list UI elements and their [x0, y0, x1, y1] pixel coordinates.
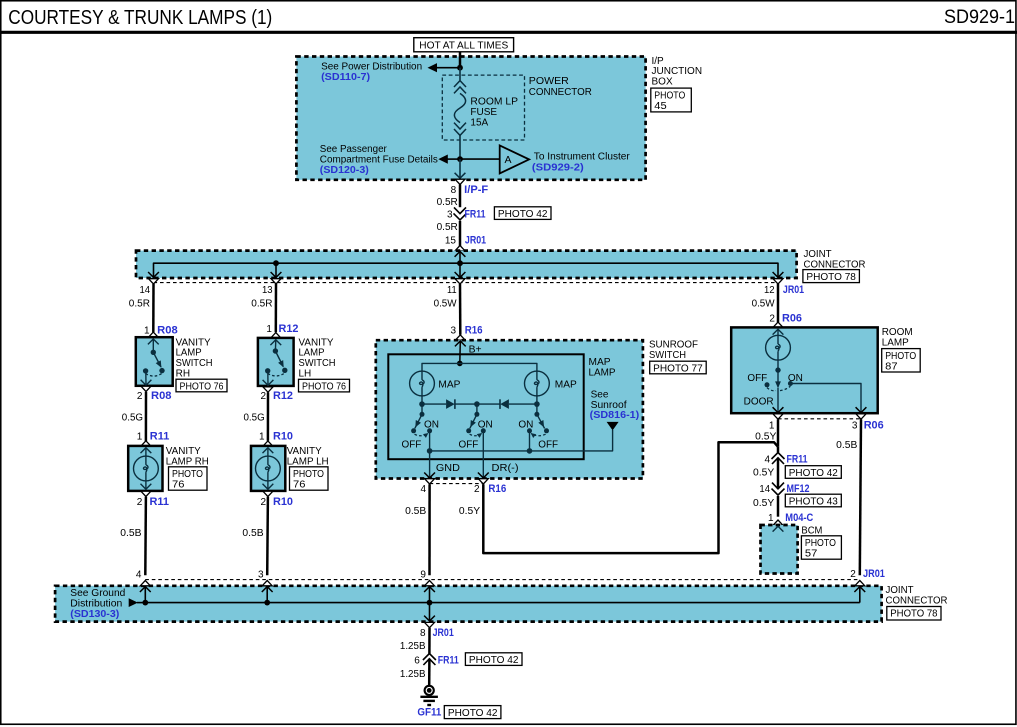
svg-text:BCM: BCM — [801, 526, 822, 537]
svg-text:87: 87 — [885, 361, 898, 372]
wire 0.5R segment 1 — [459, 185, 462, 208]
inline connector 3 FR11 — [454, 207, 466, 213]
svg-text:R06: R06 — [782, 312, 802, 324]
svg-text:2: 2 — [850, 569, 856, 580]
wire 0.5B LH to ground bus — [266, 497, 269, 576]
svg-text:COURTESY & TRUNK LAMPS (1): COURTESY & TRUNK LAMPS (1) — [8, 6, 272, 29]
svg-text:3: 3 — [451, 325, 457, 336]
photo 87 box — [882, 349, 921, 373]
GND exit wire — [429, 451, 431, 478]
connector 8 I/P-F — [455, 179, 465, 184]
svg-text:0.5G: 0.5G — [122, 412, 143, 423]
svg-text:PHOTO 42: PHOTO 42 — [469, 655, 519, 666]
photo 57 box — [801, 536, 841, 560]
wire 0.5Y room lamp pin1 — [777, 419, 780, 446]
svg-text:LAMP: LAMP — [882, 338, 909, 349]
bottom joint connector labels — [886, 585, 948, 607]
fuse label ROOM LP FUSE 15A — [470, 96, 518, 128]
svg-text:PHOTO 76: PHOTO 76 — [180, 381, 224, 392]
I/P junction box (dashed) — [296, 57, 645, 180]
photo 42 box right1 — [785, 466, 841, 479]
svg-text:See Passenger: See Passenger — [320, 144, 388, 155]
svg-text:1.25B: 1.25B — [400, 669, 426, 680]
svg-text:0.5Y: 0.5Y — [755, 431, 777, 442]
svg-text:R12: R12 — [273, 390, 293, 402]
junction node at power feed — [457, 65, 463, 71]
arrow at I/P box exit — [455, 173, 466, 178]
svg-text:3: 3 — [258, 569, 264, 580]
joint connector JR01 box (top) — [136, 251, 797, 278]
B+ entry arrow — [455, 341, 466, 346]
svg-text:MAP: MAP — [555, 379, 577, 390]
svg-text:SUNROOF: SUNROOF — [649, 339, 698, 350]
title bar separator line — [0, 31, 1017, 34]
wire 0.5Y to BCM — [777, 496, 780, 517]
wire 0.5B RH to ground bus — [144, 497, 147, 576]
svg-text:PHOTO 78: PHOTO 78 — [890, 609, 938, 620]
I/P junction box label — [652, 56, 703, 88]
map lamp right — [525, 371, 550, 396]
pin 3 connector bottom — [262, 581, 272, 586]
svg-text:14: 14 — [759, 484, 770, 495]
svg-text:MAP: MAP — [589, 357, 611, 368]
wire to see-power-distribution arrow — [436, 67, 460, 69]
svg-text:LAMP LH: LAMP LH — [287, 456, 329, 467]
vanity lamp switch LH box — [258, 338, 294, 386]
pin 13 connector — [271, 279, 281, 284]
label See Power Distribution — [321, 62, 422, 83]
svg-text:(SD130-3): (SD130-3) — [70, 608, 119, 620]
svg-text:PHOTO: PHOTO — [654, 90, 685, 101]
svg-text:0.5B: 0.5B — [836, 440, 858, 451]
BCM box (dashed) — [761, 525, 798, 574]
svg-text:SD929-1: SD929-1 — [944, 7, 1015, 28]
wire to gauge triangle — [460, 158, 500, 160]
svg-text:PHOTO 42: PHOTO 42 — [448, 708, 498, 719]
svg-text:2: 2 — [769, 313, 775, 324]
thin dashed connector line (sunroof) — [430, 483, 484, 485]
svg-text:8: 8 — [420, 628, 426, 639]
label vanity lamp switch LH — [299, 337, 336, 379]
pin 14 connector — [149, 279, 159, 284]
svg-text:PHOTO: PHOTO — [805, 538, 836, 549]
label vanity lamp LH — [287, 446, 329, 467]
svg-text:0.5R: 0.5R — [251, 298, 272, 309]
svg-text:3: 3 — [852, 421, 858, 432]
svg-text:CONNECTOR: CONNECTOR — [529, 87, 592, 98]
svg-text:See Ground: See Ground — [70, 588, 125, 599]
svg-text:1: 1 — [266, 324, 272, 335]
pin 8 exit — [429, 603, 431, 622]
pin 11 connector — [455, 279, 465, 284]
photo 76 box lamp LH — [290, 467, 329, 491]
svg-text:PHOTO 42: PHOTO 42 — [498, 209, 548, 220]
svg-text:2: 2 — [137, 497, 143, 508]
gauge symbol A triangle — [500, 145, 529, 173]
svg-text:R08: R08 — [157, 324, 178, 336]
thin dashed connector line (room lamp) — [778, 418, 861, 420]
vanity lamp RH internals — [134, 448, 159, 490]
svg-text:A: A — [505, 155, 512, 166]
vanity lamp LH box — [251, 446, 285, 491]
svg-text:0.5Y: 0.5Y — [753, 468, 775, 479]
svg-text:ON: ON — [478, 419, 493, 430]
svg-text:HOT AT ALL TIMES: HOT AT ALL TIMES — [419, 41, 508, 52]
wire 0.5B room lamp pin3 to JR01 — [860, 419, 861, 575]
svg-text:14: 14 — [140, 285, 151, 296]
DR(-) exit wire — [482, 431, 484, 478]
ground bus wire — [145, 602, 860, 604]
svg-text:1: 1 — [768, 513, 774, 524]
diode D1 — [446, 399, 455, 409]
svg-text:8: 8 — [451, 185, 457, 196]
svg-text:PHOTO: PHOTO — [293, 469, 324, 480]
svg-text:2: 2 — [137, 391, 143, 402]
svg-text:0.5R: 0.5R — [129, 298, 150, 309]
svg-text:MAP: MAP — [438, 379, 460, 390]
room lamp labels — [882, 327, 913, 349]
pin 13 internal wire — [275, 263, 277, 278]
svg-text:RH: RH — [176, 368, 190, 379]
svg-text:0.5B: 0.5B — [242, 528, 264, 539]
connector 2 R11 — [141, 491, 151, 496]
photo 42 box top — [494, 207, 551, 220]
sunroof switch S3 — [518, 404, 558, 450]
fuse bottom connector chevrons — [454, 123, 466, 129]
see sunroof arrow — [607, 422, 619, 431]
svg-text:R16: R16 — [488, 483, 506, 495]
svg-text:1: 1 — [137, 432, 143, 443]
wire from HOT label into box — [459, 52, 462, 68]
pin 9 connector bottom — [425, 581, 435, 586]
wire 0.5G RH — [145, 392, 148, 442]
map lamp left — [410, 371, 435, 396]
diode bus wires — [421, 396, 423, 404]
svg-text:R10: R10 — [273, 431, 293, 443]
svg-text:CONNECTOR: CONNECTOR — [886, 596, 948, 607]
svg-text:0.5B: 0.5B — [405, 506, 427, 517]
photo 76 box switch LH — [299, 379, 350, 392]
svg-text:6: 6 — [414, 656, 420, 667]
switch RH internals — [141, 339, 165, 385]
svg-text:1: 1 — [259, 432, 265, 443]
svg-text:1.25B: 1.25B — [400, 641, 426, 652]
joint connector bus wire — [154, 263, 779, 278]
svg-text:4: 4 — [420, 484, 426, 495]
svg-text:2: 2 — [261, 391, 267, 402]
svg-text:FUSE: FUSE — [470, 107, 497, 118]
wire from fuse to cluster node — [459, 135, 461, 159]
svg-text:PHOTO: PHOTO — [172, 469, 203, 480]
svg-text:R08: R08 — [151, 390, 172, 402]
wire fuse output down — [459, 159, 461, 179]
svg-text:JR01: JR01 — [783, 284, 804, 296]
svg-text:R06: R06 — [864, 420, 884, 432]
svg-text:3: 3 — [447, 209, 453, 220]
map lamp inner box — [388, 354, 583, 459]
sunroof switch S1 — [402, 404, 440, 450]
svg-text:LAMP RH: LAMP RH — [166, 456, 209, 467]
svg-text:JR01: JR01 — [433, 627, 454, 639]
svg-text:JR01: JR01 — [863, 568, 885, 580]
svg-text:DOOR: DOOR — [744, 397, 774, 408]
svg-text:ON: ON — [424, 419, 439, 430]
connector 2 R08 — [141, 386, 151, 391]
pin 12 connector — [773, 279, 783, 284]
svg-text:15: 15 — [445, 236, 457, 247]
arrow to fuse details — [438, 155, 448, 164]
room lamp internals — [744, 329, 867, 412]
svg-text:(SD929-2): (SD929-2) — [532, 161, 584, 173]
svg-text:15A: 15A — [470, 118, 488, 129]
pin 11 internal wire — [459, 263, 461, 278]
fuse ROOM LP FUSE 15A element — [454, 93, 465, 122]
label vanity lamp RH — [166, 446, 209, 467]
wire 0.5Y DR(-) to BCM net — [483, 442, 778, 553]
connector 2 R10 — [263, 491, 273, 496]
diode bus nodes — [419, 401, 425, 407]
junction node to instrument cluster — [457, 156, 463, 162]
sunroof exit connectors — [425, 479, 435, 484]
lamp feed bus — [457, 361, 463, 367]
svg-text:SWITCH: SWITCH — [649, 350, 686, 361]
wire 0.5B GND to ground bus — [428, 484, 431, 575]
sunroof switch box (dashed) — [376, 340, 643, 478]
power connector label — [529, 76, 592, 98]
svg-text:CONNECTOR: CONNECTOR — [804, 259, 866, 270]
room lamp box — [731, 327, 878, 413]
svg-text:BOX: BOX — [652, 76, 673, 87]
inline connector 14 MF12 — [772, 483, 784, 489]
svg-text:FR11: FR11 — [465, 208, 486, 220]
sunroof switch S2 — [459, 404, 493, 450]
thin dashed connector line (bottom) — [145, 579, 860, 581]
sunroof bottom bus — [429, 431, 431, 451]
svg-text:2: 2 — [474, 484, 480, 495]
svg-text:(SD110-7): (SD110-7) — [321, 71, 370, 83]
label vanity lamp switch RH — [176, 337, 213, 379]
svg-text:0.5R: 0.5R — [437, 222, 458, 233]
wire 0.5W pin12 drop — [777, 284, 780, 322]
svg-text:GND: GND — [436, 463, 460, 474]
wire 0.5R segment 2 — [459, 221, 462, 246]
diode D2 — [500, 399, 509, 409]
photo 42 box ground — [444, 706, 501, 719]
svg-text:PHOTO 76: PHOTO 76 — [302, 382, 346, 393]
svg-text:MF12: MF12 — [787, 483, 810, 495]
svg-text:1: 1 — [144, 325, 150, 336]
svg-text:ROOM: ROOM — [882, 327, 913, 338]
see ground distribution arrow — [129, 598, 138, 607]
switch LH internals — [263, 340, 288, 386]
svg-text:12: 12 — [764, 285, 775, 296]
svg-text:JOINT: JOINT — [886, 585, 914, 596]
svg-text:(SD120-3): (SD120-3) — [320, 164, 369, 176]
svg-text:0.5R: 0.5R — [437, 197, 458, 208]
svg-text:See: See — [591, 389, 609, 400]
svg-text:0.5W: 0.5W — [752, 298, 776, 309]
map lamp label — [589, 357, 616, 379]
ground symbol GF11 — [420, 686, 438, 705]
svg-text:LH: LH — [299, 368, 312, 379]
svg-text:DR(-): DR(-) — [492, 463, 519, 474]
photo 45 box — [651, 88, 692, 112]
wire 0.5G LH — [267, 392, 270, 440]
svg-text:ON: ON — [788, 373, 803, 384]
svg-text:0.5G: 0.5G — [244, 412, 265, 423]
svg-text:0.5Y: 0.5Y — [753, 498, 775, 509]
exit arrows top joint connector — [148, 272, 159, 277]
photo 77 box — [650, 361, 707, 374]
svg-text:R11: R11 — [150, 431, 170, 443]
wire 0.5R pin14 drop — [152, 284, 155, 332]
svg-text:0.5Y: 0.5Y — [459, 506, 481, 517]
svg-text:I/P-F: I/P-F — [464, 184, 488, 196]
label HOT AT ALL TIMES — [414, 38, 514, 52]
svg-text:OFF: OFF — [459, 439, 479, 450]
vanity lamp switch RH box — [136, 337, 173, 386]
wire 1.25B segment 2 — [428, 659, 431, 685]
wire 0.5Y to MF12 — [777, 458, 780, 489]
room lamp exit connectors — [773, 414, 783, 419]
label See Sunroof SD816-1 — [590, 389, 640, 421]
connector 2 R12 — [263, 387, 273, 392]
inline connector 6 FR11 — [423, 654, 436, 661]
svg-text:PHOTO 78: PHOTO 78 — [806, 272, 856, 283]
svg-text:FR11: FR11 — [438, 655, 459, 667]
svg-text:R12: R12 — [279, 323, 299, 335]
pin 2 connector bottom — [855, 581, 865, 586]
svg-text:0.5W: 0.5W — [434, 298, 458, 309]
svg-text:R16: R16 — [465, 324, 483, 336]
vanity lamp LH internals — [256, 448, 281, 490]
svg-text:57: 57 — [805, 549, 818, 560]
svg-text:4: 4 — [764, 455, 770, 466]
svg-text:13: 13 — [262, 285, 273, 296]
svg-text:ON: ON — [518, 419, 533, 430]
svg-text:0.5B: 0.5B — [120, 528, 142, 539]
fuse top connector chevrons — [454, 81, 466, 87]
pin 4 connector bottom — [140, 581, 150, 586]
wire into fuse connector — [459, 68, 461, 81]
power connector dashed box — [442, 75, 524, 140]
arrow to power distribution — [428, 63, 438, 72]
wire 0.5R pin13 drop — [275, 284, 278, 332]
photo 78 box bottom — [887, 607, 941, 621]
svg-text:OFF: OFF — [402, 439, 422, 450]
photo 43 box — [785, 494, 841, 507]
svg-text:JOINT: JOINT — [804, 249, 832, 260]
svg-text:4: 4 — [136, 569, 142, 580]
svg-text:OFF: OFF — [747, 373, 767, 384]
svg-text:2: 2 — [261, 497, 267, 508]
vanity lamp RH box — [128, 446, 162, 491]
label To Instrument Cluster — [532, 152, 631, 174]
svg-text:1: 1 — [769, 421, 775, 432]
svg-text:76: 76 — [172, 480, 185, 491]
svg-text:FR11: FR11 — [787, 454, 808, 466]
photo 76 box lamp RH — [169, 467, 208, 491]
svg-text:R11: R11 — [150, 496, 170, 508]
photo 42 box bottom — [465, 653, 522, 666]
svg-text:11: 11 — [447, 285, 457, 296]
svg-text:ROOM LP: ROOM LP — [470, 96, 518, 107]
photo 76 box switch RH — [176, 379, 227, 392]
thin dashed connector line (top) — [154, 282, 779, 284]
photo 78 box top — [803, 270, 860, 283]
wire 1.25B segment 1 — [428, 628, 431, 654]
label See Ground Distribution — [70, 588, 125, 620]
svg-text:(SD816-1): (SD816-1) — [590, 409, 640, 421]
wire to passenger-compartment arrow — [447, 158, 460, 160]
svg-text:PHOTO 42: PHOTO 42 — [789, 468, 838, 479]
BCM entry arrow — [773, 526, 784, 531]
svg-text:LAMP: LAMP — [589, 367, 616, 378]
svg-text:45: 45 — [654, 101, 667, 112]
svg-text:POWER: POWER — [529, 76, 569, 87]
svg-text:OFF: OFF — [538, 439, 558, 450]
svg-text:GF11: GF11 — [417, 707, 441, 719]
inline connector 4 FR11 — [772, 453, 785, 460]
svg-text:76: 76 — [293, 480, 306, 491]
label See Passenger Compartment Fuse Details — [320, 144, 438, 176]
svg-text:9: 9 — [420, 569, 426, 580]
svg-text:JR01: JR01 — [465, 235, 486, 247]
sunroof switch labels — [649, 339, 698, 361]
svg-text:M04-C: M04-C — [785, 512, 813, 524]
joint connector JR01 box (bottom) — [55, 586, 882, 622]
entry arrow inside joint connector — [455, 251, 466, 256]
svg-text:PHOTO: PHOTO — [885, 351, 916, 362]
bus junction node pin13 — [273, 260, 279, 266]
wire 0.5W pin11 drop — [459, 284, 462, 335]
svg-text:PHOTO 43: PHOTO 43 — [789, 496, 838, 507]
svg-text:R10: R10 — [273, 496, 293, 508]
svg-text:PHOTO 77: PHOTO 77 — [653, 363, 703, 374]
bus junction node pin11 — [457, 260, 463, 266]
joint connector labels — [804, 249, 866, 271]
